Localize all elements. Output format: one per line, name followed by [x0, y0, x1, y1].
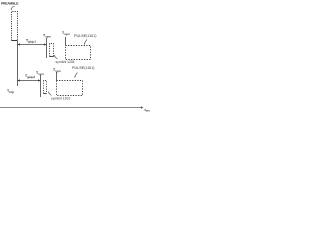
svg-text:Tsym: Tsym — [43, 34, 51, 39]
svg-text:Tsym: Tsym — [36, 71, 44, 76]
tick line Tsym2 row2 — [56, 72, 58, 81]
arrow from symbol text to pulse row1 — [55, 56, 58, 59]
svg-text:Trep: Trep — [7, 89, 14, 94]
svg-text:Tgap,1: Tgap,1 — [26, 39, 36, 44]
symbol pulse row2 bottom — [44, 93, 47, 95]
preamble pulse envelope (dashed) — [12, 12, 18, 41]
time axis — [0, 107, 141, 109]
svg-text:PREAMBLE: PREAMBLE — [1, 1, 19, 5]
arrow from symbol text to pulse row2 — [49, 93, 52, 96]
svg-text:Tsym: Tsym — [62, 31, 70, 36]
dashed inset box row2 — [57, 81, 83, 96]
svg-text:symbol 1201: symbol 1201 — [51, 96, 70, 100]
arrow from PULSE label to box row1 — [84, 40, 87, 44]
svg-text:PULSE(1101): PULSE(1101) — [74, 34, 96, 38]
svg-text:Tsym: Tsym — [53, 68, 61, 73]
frame-start vertical line — [17, 41, 19, 87]
tick line at symbol start row1 — [46, 38, 48, 58]
arrow from PULSE label to box row2 — [75, 73, 78, 77]
symbol pulse row1 bottom — [50, 56, 54, 58]
svg-text:tms: tms — [145, 108, 151, 113]
symbol pulse row2 (dashed) — [44, 81, 47, 94]
axis arrowhead — [141, 106, 144, 108]
svg-text:PULSE(1101): PULSE(1101) — [72, 66, 94, 70]
tick line at symbol start row2 — [40, 75, 42, 97]
svg-text:Tgap,2: Tgap,2 — [25, 74, 35, 79]
tick line Tsym2 row1 — [65, 37, 67, 46]
svg-text:symbol 1201: symbol 1201 — [56, 60, 75, 64]
dashed inset box row1 — [66, 46, 91, 60]
dimension line Tgap2 — [18, 80, 41, 82]
arrow from label to preamble pulse — [11, 6, 14, 9]
symbol pulse row1 (dashed) — [50, 44, 54, 57]
preamble pulse bottom edge — [12, 40, 18, 42]
dimension line Tgap1 — [18, 44, 47, 46]
